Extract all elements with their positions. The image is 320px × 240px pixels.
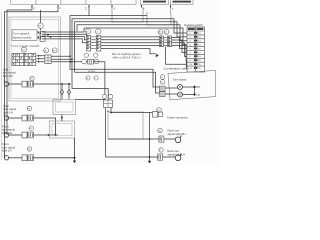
connector ref B6	[44, 48, 49, 53]
pin arrows	[37, 55, 40, 63]
meter connectors	[160, 75, 165, 80]
rear turn signal light LH	[159, 148, 163, 152]
cluster stack bottom ref circles	[84, 53, 88, 57]
pins between halves	[91, 37, 97, 49]
wire: U link between ticks 112 and 141.5	[112, 8, 143, 23]
box1 to box2 link	[61, 115, 63, 122]
svg-text:RH: RH	[197, 86, 201, 89]
cluster right wires	[101, 37, 160, 54]
svg-text:light LH: light LH	[2, 149, 11, 153]
small connector	[45, 55, 51, 64]
wire: tick 89 down	[88, 8, 90, 16]
svg-text:Trailer connector: Trailer connector	[167, 115, 188, 119]
ground 1	[73, 161, 76, 164]
wire: tick 58 to left rail x=4.5	[5, 8, 59, 158]
svg-text:signal light RH: signal light RH	[168, 132, 186, 136]
ground 2	[149, 113, 151, 161]
svg-text:Turn signal: Turn signal	[173, 78, 187, 82]
turn signal & hazard module	[40, 10, 42, 31]
cluster bottom row connector	[82, 59, 87, 64]
big left switch box (nested)	[9, 17, 61, 101]
right mini connector stack	[158, 29, 163, 34]
wire: tick 32 to left rail x=7	[7, 8, 32, 136]
switch grids	[12, 53, 36, 65]
module wires	[42, 28, 87, 43]
svg-text:<Ref. to WI-14, F16-2.>: <Ref. to WI-14, F16-2.>	[112, 55, 142, 59]
svg-text:LH: LH	[197, 94, 200, 97]
relay box 3	[108, 112, 143, 139]
meter lamps	[178, 85, 183, 90]
svg-text:Combination meter: Combination meter	[164, 66, 189, 70]
indicator bulbs in switch	[61, 84, 71, 100]
connector ref C3	[22, 47, 27, 52]
wire box1 top to trailer connector vertical	[76, 99, 105, 101]
feeds to hazard bottom rows	[166, 47, 188, 68]
rear turn signal light RH	[158, 128, 163, 133]
switch body box 1	[53, 100, 76, 115]
connector ref B4	[52, 48, 57, 53]
fuse box row (clipped at top)	[11, 0, 137, 5]
trailer feed from corner	[72, 59, 108, 100]
ministack to hazard table stairs	[172, 37, 188, 60]
svg-text:Hazard switch: Hazard switch	[184, 23, 203, 27]
nested routing lines A-D from corners	[70, 16, 187, 73]
line E from module wire bend	[84, 28, 187, 45]
svg-text:light LH: light LH	[3, 110, 12, 114]
svg-text:A/T&A: A/T&A	[88, 71, 96, 74]
svg-text:hazard module: hazard module	[13, 35, 32, 39]
meter feed wires	[70, 56, 178, 94]
svg-text:1: 1	[85, 7, 87, 11]
corner piece right: box at 147,12-171,25	[147, 8, 171, 26]
switch body box 2	[50, 121, 75, 138]
fuse output ticks	[32, 5, 171, 8]
svg-text:light RH: light RH	[3, 74, 13, 78]
fuse label box 1	[141, 0, 169, 5]
page border	[1, 12, 3, 160]
trailer connector	[157, 108, 162, 113]
central connector cluster: two half-stacks	[85, 29, 90, 34]
fuse label box 2	[171, 0, 194, 5]
